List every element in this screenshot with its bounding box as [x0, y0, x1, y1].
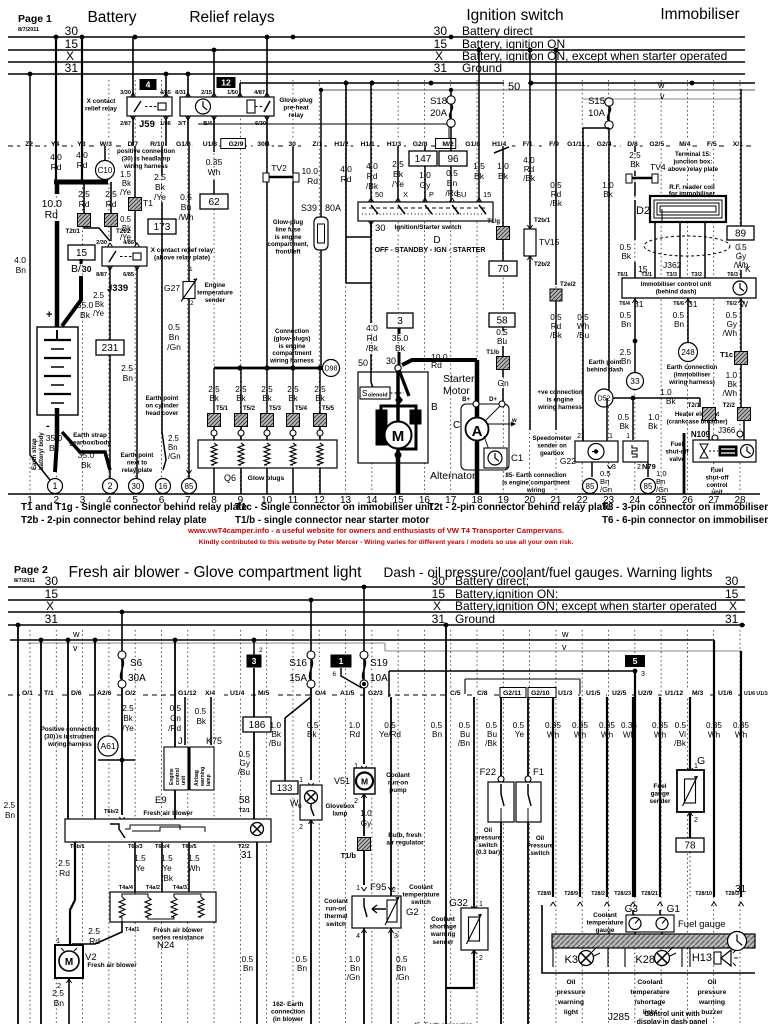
- bus line 15: [8, 49, 745, 51]
- svg-text:U2/9: U2/9: [638, 690, 653, 697]
- svg-text:0.5: 0.5: [735, 243, 747, 252]
- svg-text:U2/5: U2/5: [612, 690, 627, 697]
- svg-text:pump: pump: [389, 787, 406, 794]
- svg-text:89: 89: [735, 229, 747, 240]
- svg-text:T28/8: T28/8: [537, 891, 551, 897]
- svg-text:6: 6: [298, 803, 302, 810]
- svg-text:0.5: 0.5: [513, 721, 525, 730]
- svg-text:3/T: 3/T: [178, 121, 187, 127]
- svg-text:2: 2: [577, 433, 581, 440]
- svg-text:Z2: Z2: [25, 141, 33, 148]
- svg-text:Oil: Oil: [707, 979, 716, 986]
- 5 black connector: [625, 655, 645, 667]
- svg-text:80A: 80A: [325, 203, 341, 213]
- svg-text:Q6: Q6: [224, 473, 236, 483]
- svg-text:is engine compartment: is engine compartment: [502, 479, 570, 486]
- svg-text:J285: J285: [608, 1012, 630, 1023]
- svg-text:D/6: D/6: [71, 690, 82, 697]
- svg-text:/Wh: /Wh: [722, 329, 737, 338]
- svg-text:next to: next to: [127, 459, 148, 466]
- svg-text:T5/5: T5/5: [322, 406, 335, 412]
- svg-text:Bk: Bk: [122, 224, 131, 233]
- svg-text:T1/g: T1/g: [487, 218, 500, 225]
- svg-text:H1/4: H1/4: [492, 141, 507, 148]
- svg-text:N24: N24: [157, 940, 174, 951]
- C/5 ground col: [445, 625, 447, 1024]
- svg-text:0.5: 0.5: [726, 311, 738, 320]
- svg-text:U1/6 U1/10: U1/6 U1/10: [744, 691, 768, 697]
- svg-text:30: 30: [132, 482, 141, 491]
- svg-text:D/8: D/8: [627, 141, 638, 148]
- svg-text:Bk: Bk: [236, 394, 246, 403]
- svg-text:T28/21: T28/21: [641, 891, 658, 897]
- D98 junction: [214, 367, 324, 370]
- svg-text:1: 1: [356, 885, 360, 892]
- svg-text:M/2: M/2: [442, 141, 454, 148]
- svg-text:/Ye: /Ye: [154, 192, 166, 202]
- svg-text:A1/5: A1/5: [340, 690, 355, 697]
- svg-text:Motor: Motor: [443, 385, 470, 397]
- svg-text:Oil: Oil: [484, 827, 493, 834]
- svg-text:/Bu: /Bu: [238, 768, 251, 777]
- svg-text:O/1: O/1: [22, 690, 33, 697]
- svg-text:Glove-plug: Glove-plug: [279, 97, 312, 104]
- svg-text:G: G: [697, 755, 705, 767]
- svg-text:pressure: pressure: [698, 989, 727, 996]
- svg-text:F/5: F/5: [707, 141, 717, 148]
- svg-text:85: 85: [644, 482, 653, 491]
- svg-text:1: 1: [189, 266, 193, 273]
- svg-text:Bk: Bk: [123, 714, 133, 723]
- svg-text:0.5: 0.5: [120, 215, 132, 224]
- bottom frame line p1: [8, 493, 760, 495]
- svg-text:T2/1: T2/1: [239, 808, 250, 814]
- svg-text:www.vwT4camper.info - a useful: www.vwT4camper.info - a useful website f…: [187, 526, 564, 535]
- svg-text:pressure: pressure: [557, 989, 586, 996]
- fuel gauge sender G: [689, 697, 691, 770]
- svg-text:Bn: Bn: [243, 964, 253, 973]
- svg-text:lamp: lamp: [333, 811, 348, 818]
- svg-text:2.5: 2.5: [208, 385, 220, 394]
- svg-text:Bn: Bn: [16, 265, 27, 275]
- svg-text:2.5: 2.5: [235, 385, 247, 394]
- G1/11 column: [582, 146, 584, 441]
- svg-text:Fuel: Fuel: [653, 783, 666, 790]
- svg-text:0.5: 0.5: [577, 313, 589, 322]
- N79 heater element: [623, 441, 648, 462]
- svg-text:gauge: gauge: [596, 927, 615, 934]
- battery feed wires top: [55, 37, 57, 182]
- svg-text:K: K: [745, 264, 751, 274]
- svg-text:2.5: 2.5: [154, 172, 166, 182]
- svg-text:Bu: Bu: [497, 337, 507, 346]
- svg-text:62: 62: [208, 197, 220, 208]
- svg-text:Rd: Rd: [59, 868, 70, 878]
- svg-text:X: X: [433, 599, 441, 613]
- svg-text:Wh: Wh: [208, 167, 221, 177]
- svg-text:2.5: 2.5: [314, 385, 326, 394]
- svg-text:display in dash panel: display in dash panel: [637, 1019, 708, 1024]
- svg-text:31: 31: [725, 612, 739, 626]
- boxed label G2/10: [528, 688, 556, 698]
- svg-text:/Gn: /Gn: [600, 485, 612, 494]
- svg-text:D+: D+: [489, 397, 497, 403]
- svg-text:/Gn: /Gn: [396, 973, 410, 982]
- bus line 30 p2: [8, 586, 745, 588]
- svg-text:15: 15: [76, 248, 88, 259]
- svg-text:G32: G32: [449, 898, 468, 909]
- svg-text:F/9: F/9: [549, 141, 559, 148]
- svg-text:T2/1: T2/1: [688, 402, 701, 409]
- track label row p1: [8, 145, 752, 147]
- svg-text:Bk: Bk: [648, 422, 658, 431]
- F1 oil pressure switch: [527, 697, 529, 777]
- S16 fuse: [310, 600, 312, 653]
- svg-text:buzzer: buzzer: [701, 1009, 723, 1016]
- svg-text:C/8: C/8: [477, 690, 488, 697]
- svg-text:T5/1: T5/1: [216, 406, 229, 412]
- svg-text:0.5: 0.5: [242, 955, 254, 964]
- svg-text:2: 2: [637, 464, 641, 471]
- svg-text:0.35: 0.35: [206, 157, 223, 167]
- svg-text:30A: 30A: [128, 673, 146, 684]
- svg-text:Coolant: Coolant: [409, 884, 434, 891]
- svg-text:0.5: 0.5: [170, 704, 182, 713]
- svg-text:compartment: compartment: [272, 350, 311, 357]
- relay2 wires: [187, 74, 189, 97]
- svg-text:relief relay: relief relay: [85, 106, 117, 113]
- svg-text:Ignition/Starter switch: Ignition/Starter switch: [394, 224, 461, 231]
- svg-text:/Bk: /Bk: [485, 739, 498, 748]
- svg-text:/Bu: /Bu: [269, 739, 282, 748]
- svg-text:Earth connection: Earth connection: [667, 364, 718, 371]
- svg-text:Bk: Bk: [603, 190, 613, 199]
- svg-text:compartment,: compartment,: [268, 241, 309, 248]
- svg-text:8/7/2011: 8/7/2011: [14, 578, 35, 584]
- svg-text:1.0: 1.0: [349, 721, 361, 730]
- svg-text:OFF - STANDBY - IGN - STARTER: OFF - STANDBY - IGN - STARTER: [375, 247, 486, 254]
- svg-text:Bn: Bn: [350, 964, 360, 973]
- svg-text:T1c: T1c: [720, 350, 733, 359]
- svg-text:F1: F1: [533, 767, 544, 778]
- svg-text:SU: SU: [456, 190, 466, 199]
- svg-text:1: 1: [56, 938, 60, 945]
- 4.0 Bn left col: [29, 74, 31, 455]
- svg-text:+: +: [46, 309, 52, 321]
- svg-text:U1/4: U1/4: [230, 690, 245, 697]
- svg-text:2: 2: [190, 300, 194, 307]
- svg-text:Bk: Bk: [95, 300, 104, 309]
- svg-text:U1/6: U1/6: [718, 690, 733, 697]
- svg-text:Bn: Bn: [621, 320, 631, 329]
- J / K75 control boxes: [184, 697, 186, 745]
- svg-text:3: 3: [641, 671, 645, 678]
- svg-text:-: -: [46, 420, 50, 432]
- svg-text:0.5: 0.5: [550, 313, 562, 322]
- svg-text:Gy: Gy: [727, 320, 738, 329]
- svg-text:/shortage: /shortage: [635, 999, 666, 1006]
- svg-text:31: 31: [45, 612, 59, 626]
- svg-text:warning: warning: [698, 999, 725, 1006]
- svg-text:4.0: 4.0: [76, 150, 88, 160]
- svg-text:0.5: 0.5: [296, 955, 308, 964]
- svg-text:(30) is headlamp: (30) is headlamp: [122, 155, 171, 162]
- svg-text:/Bk: /Bk: [161, 874, 174, 883]
- svg-text:2.5: 2.5: [105, 189, 117, 199]
- svg-text:G1/12: G1/12: [178, 690, 197, 697]
- svg-text:Rd: Rd: [79, 199, 90, 209]
- earth circles p1: [48, 479, 63, 494]
- svg-text:Gy: Gy: [736, 252, 747, 261]
- svg-text:Ignition switch: Ignition switch: [466, 7, 563, 24]
- svg-text:G2: G2: [406, 907, 419, 918]
- svg-text:Gn: Gn: [170, 714, 181, 723]
- svg-text:85: 85: [185, 482, 194, 491]
- svg-text:Relief relays: Relief relays: [189, 9, 275, 26]
- svg-text:Rd: Rd: [307, 176, 318, 186]
- svg-text:30: 30: [386, 356, 396, 366]
- svg-text:70: 70: [497, 264, 509, 275]
- svg-text:1: 1: [339, 656, 344, 666]
- svg-text:2.5: 2.5: [78, 189, 90, 199]
- svg-text:96: 96: [447, 154, 459, 165]
- svg-text:D2: D2: [636, 205, 650, 217]
- svg-text:Coolant: Coolant: [637, 979, 663, 986]
- svg-text:1.5: 1.5: [161, 854, 173, 863]
- svg-text:Bn: Bn: [297, 964, 307, 973]
- box 173: [148, 219, 176, 234]
- G2/4 column to D52: [608, 146, 610, 391]
- svg-text:T5/4: T5/4: [295, 406, 308, 412]
- svg-text:/Bu: /Bu: [577, 331, 590, 340]
- svg-text:Immobiliser control unit: Immobiliser control unit: [641, 281, 711, 288]
- bus line 30: [8, 36, 745, 38]
- svg-text:0.35: 0.35: [572, 721, 588, 730]
- svg-text:Bk: Bk: [262, 394, 272, 403]
- svg-text:0.5: 0.5: [673, 311, 685, 320]
- svg-text:2.5: 2.5: [261, 385, 273, 394]
- battery plus bar: [54, 180, 108, 185]
- 133 box column: [284, 718, 286, 781]
- svg-text:Bn: Bn: [447, 178, 458, 188]
- svg-text:0.5: 0.5: [675, 721, 687, 730]
- v rail p1: [583, 98, 741, 100]
- svg-text:is engine: is engine: [275, 234, 302, 241]
- svg-text:G22: G22: [560, 456, 576, 466]
- svg-text:2/15: 2/15: [201, 90, 212, 96]
- svg-text:Bk: Bk: [49, 443, 60, 453]
- svg-text:N79: N79: [642, 462, 656, 471]
- svg-text:4: 4: [146, 80, 151, 90]
- svg-text:Positive connection: Positive connection: [41, 726, 100, 733]
- svg-text:D: D: [433, 235, 440, 246]
- svg-text:T1/b - single connector near s: T1/b - single connector near starter mot…: [235, 515, 430, 526]
- ignition switch box: [358, 202, 493, 221]
- track label row p2: [8, 694, 760, 696]
- svg-text:0.35: 0.35: [621, 721, 637, 730]
- svg-text:X: X: [46, 599, 54, 613]
- svg-text:J59: J59: [139, 119, 155, 130]
- svg-text:Bulb, fresh: Bulb, fresh: [388, 832, 421, 839]
- X contact relief relay 2: [102, 247, 147, 266]
- ignition switch top boxes 147 96: [409, 151, 437, 166]
- svg-text:Bn: Bn: [621, 357, 631, 366]
- svg-text:S39: S39: [301, 203, 317, 213]
- svg-text:12: 12: [221, 78, 231, 88]
- svg-text:30: 30: [45, 574, 59, 588]
- svg-text:wiring: wiring: [526, 487, 545, 494]
- svg-text:3: 3: [397, 316, 403, 327]
- svg-text:1: 1: [609, 433, 613, 440]
- svg-text:Earth point: Earth point: [121, 452, 154, 459]
- svg-text:Control unit with: Control unit with: [644, 1011, 700, 1018]
- svg-text:Bn: Bn: [396, 964, 406, 973]
- svg-text:above relay plate: above relay plate: [668, 166, 719, 173]
- starter M motor: [376, 410, 387, 445]
- svg-text:Page 2: Page 2: [14, 564, 48, 576]
- svg-text:0.5: 0.5: [307, 721, 319, 730]
- svg-text:31: 31: [432, 612, 446, 626]
- svg-text:4.0: 4.0: [366, 161, 378, 171]
- svg-text:Bu: Bu: [181, 202, 192, 212]
- svg-text:2: 2: [299, 824, 303, 831]
- svg-text:T3/2: T3/2: [691, 272, 702, 278]
- boxed label G2/11: [500, 688, 526, 698]
- svg-text:/Rd: /Rd: [168, 724, 181, 733]
- svg-text:Bk: Bk: [630, 160, 640, 169]
- svg-text:Wh: Wh: [654, 731, 667, 740]
- svg-text:run-on: run-on: [326, 906, 346, 913]
- svg-text:M/3: M/3: [692, 690, 704, 697]
- svg-text:Bk: Bk: [666, 397, 676, 406]
- T2e/2 column: [555, 50, 557, 285]
- svg-text:0.5: 0.5: [459, 721, 471, 730]
- svg-text:Starter: Starter: [443, 373, 475, 385]
- svg-text:30B: 30B: [257, 141, 270, 148]
- svg-text:Rd: Rd: [367, 333, 378, 343]
- svg-text:M: M: [361, 777, 368, 787]
- svg-text:30: 30: [725, 574, 739, 588]
- svg-text:/Wh: /Wh: [722, 389, 737, 398]
- svg-text:P: P: [429, 190, 434, 199]
- svg-text:2.5: 2.5: [629, 151, 641, 160]
- svg-text:/Ye: /Ye: [120, 188, 131, 197]
- wires into G22/N79: [632, 398, 634, 440]
- svg-text:Bk: Bk: [209, 394, 219, 403]
- svg-text:H1/3: H1/3: [387, 141, 402, 148]
- svg-text:Bk: Bk: [395, 343, 406, 353]
- svg-text:Fresh air blower: Fresh air blower: [87, 962, 137, 969]
- svg-text:/Ye: /Ye: [93, 309, 104, 318]
- svg-text:Terminal 15:: Terminal 15:: [675, 151, 711, 158]
- svg-text:Ground: Ground: [462, 61, 502, 75]
- svg-text:8/7/2011: 8/7/2011: [18, 27, 39, 33]
- svg-text:1: 1: [52, 481, 57, 491]
- svg-text:/Ye: /Ye: [122, 724, 134, 733]
- svg-text:TV2: TV2: [271, 163, 287, 173]
- svg-text:Bn: Bn: [123, 373, 134, 383]
- svg-text:0.35: 0.35: [545, 721, 561, 730]
- svg-text:Coolant: Coolant: [593, 912, 618, 919]
- svg-text:2.5: 2.5: [88, 926, 100, 936]
- svg-text:switch: switch: [530, 850, 549, 857]
- svg-text:switch: switch: [478, 842, 497, 849]
- svg-text:31: 31: [65, 61, 79, 75]
- svg-text:T2e/2: T2e/2: [560, 281, 576, 288]
- svg-text:T1 and T1g - Single connector: T1 and T1g - Single connector behind rel…: [21, 502, 247, 513]
- svg-text:2/87: 2/87: [120, 121, 131, 127]
- svg-text:K28: K28: [635, 954, 655, 966]
- svg-text:4/87: 4/87: [254, 90, 265, 96]
- svg-text:Battery,ignition ON; except wh: Battery,ignition ON; except when starter…: [455, 599, 717, 613]
- svg-text:2.5: 2.5: [4, 801, 16, 810]
- svg-text:1.0: 1.0: [270, 721, 282, 730]
- svg-text:X/4: X/4: [205, 690, 215, 697]
- svg-text:G27: G27: [164, 283, 180, 293]
- svg-text:30: 30: [375, 223, 386, 234]
- svg-text:relay: relay: [289, 112, 304, 119]
- ignition wires: [370, 83, 372, 202]
- svg-text:switch: switch: [326, 921, 346, 928]
- svg-text:K3: K3: [565, 954, 578, 966]
- svg-text:T4a/4: T4a/4: [119, 885, 134, 891]
- svg-text:Wh: Wh: [188, 864, 201, 873]
- svg-text:3: 3: [252, 656, 257, 666]
- T2t/1 connector: [83, 182, 85, 213]
- svg-text:front/left: front/left: [275, 249, 300, 256]
- svg-text:X contact: X contact: [87, 98, 117, 105]
- N24 series resistance: [110, 892, 216, 922]
- dashed ellipse J362: [644, 236, 730, 256]
- svg-text:D52: D52: [598, 396, 611, 403]
- svg-text:olenoid: olenoid: [368, 393, 388, 399]
- svg-text:Ye: Ye: [135, 864, 145, 873]
- svg-text:35.0: 35.0: [392, 333, 409, 343]
- svg-text:T1: T1: [143, 198, 153, 208]
- svg-text:Wh: Wh: [547, 731, 560, 740]
- svg-text:35.0: 35.0: [77, 300, 94, 310]
- svg-text:2.5: 2.5: [93, 291, 105, 300]
- svg-text:31: 31: [434, 61, 448, 75]
- w rail p1: [321, 89, 755, 91]
- svg-text:8/87: 8/87: [96, 272, 107, 278]
- svg-text:248: 248: [681, 348, 695, 357]
- svg-text:C10: C10: [98, 166, 113, 175]
- svg-text:pre-heat: pre-heat: [283, 105, 309, 112]
- svg-text:Bk: Bk: [271, 730, 281, 739]
- svg-text:v: v: [562, 642, 567, 652]
- svg-text:1.5: 1.5: [134, 854, 146, 863]
- T2/2 right wire 31: [256, 842, 258, 1024]
- svg-text:T6/1: T6/1: [617, 272, 628, 278]
- svg-text:warning: warning: [430, 931, 456, 938]
- svg-text:35.0: 35.0: [46, 433, 63, 443]
- svg-text:85: 85: [586, 482, 595, 491]
- svg-text:0.35: 0.35: [599, 721, 615, 730]
- svg-text:33: 33: [630, 376, 640, 386]
- svg-text:M: M: [392, 428, 405, 445]
- svg-text:(0.3 bar): (0.3 bar): [476, 849, 500, 856]
- svg-text:/Gn: /Gn: [168, 452, 181, 461]
- svg-text:G2/5: G2/5: [649, 141, 664, 148]
- svg-text:V51: V51: [334, 776, 350, 786]
- svg-text:Bk: Bk: [81, 460, 92, 470]
- svg-text:1: 1: [479, 901, 483, 908]
- svg-text:sender: sender: [650, 798, 671, 805]
- svg-text:F95: F95: [370, 882, 386, 893]
- battery minus strap: [55, 408, 60, 440]
- svg-text:is engine: is engine: [279, 343, 306, 350]
